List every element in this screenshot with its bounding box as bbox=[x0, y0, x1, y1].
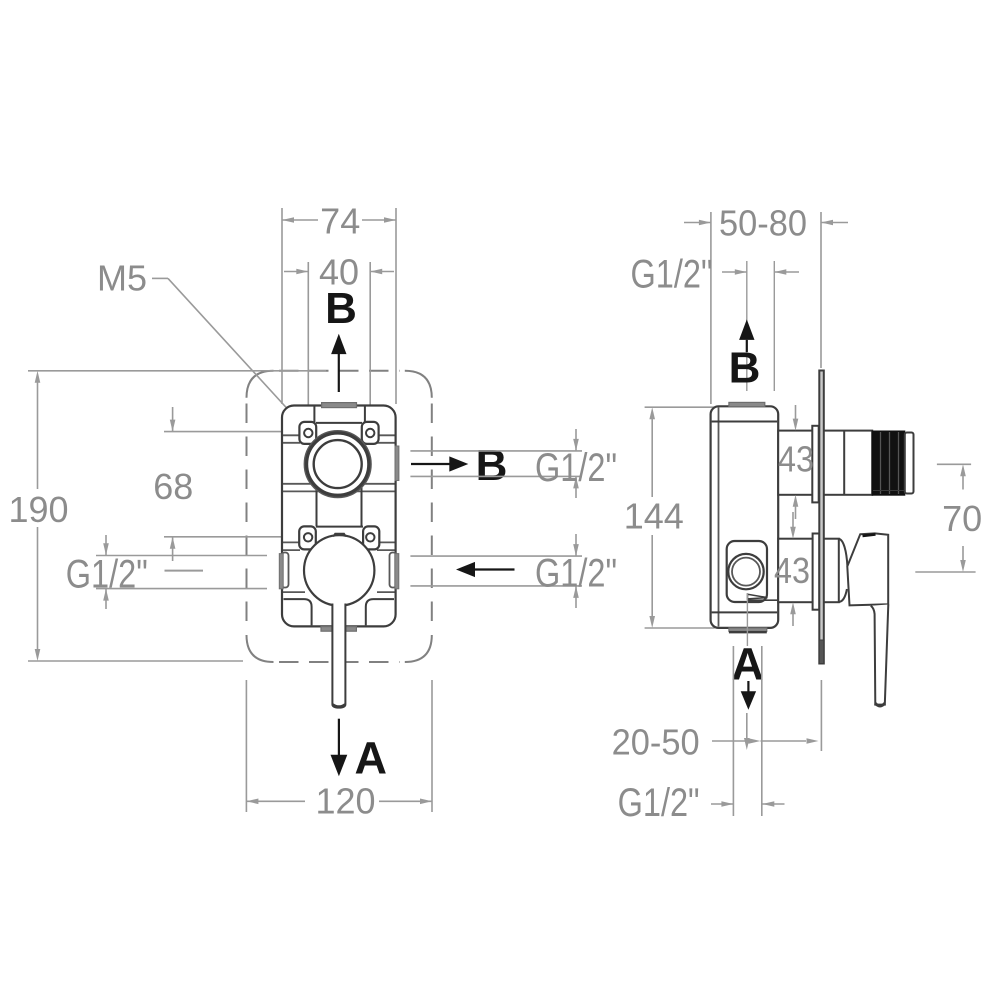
side lower port centerline bbox=[746, 593, 748, 646]
G1/2 front-left mini-dim arrows bbox=[105, 535, 107, 555]
top circle port inner ring bbox=[314, 440, 362, 488]
G1/2 lower-right mini-dim arrows bbox=[575, 534, 577, 556]
svg-text:A: A bbox=[731, 639, 764, 690]
side handle lever bottom cap bbox=[875, 703, 885, 706]
upper step lines beside top circle bbox=[283, 434, 300, 436]
lower band step lines bbox=[283, 591, 305, 593]
side lower port flange bbox=[813, 534, 820, 610]
dim 74 extension line left bbox=[281, 208, 283, 404]
left side port gray stub bbox=[279, 554, 283, 589]
front top port gray cap bbox=[322, 403, 357, 408]
dim 190 extension line top bbox=[28, 370, 326, 372]
lower screw hole right bbox=[366, 533, 374, 541]
upper screw tab right bbox=[362, 422, 379, 444]
svg-text:68: 68 bbox=[153, 466, 193, 507]
G1/2 side-top arrows outside bbox=[722, 271, 747, 273]
side cartridge circle outer bbox=[728, 554, 763, 589]
arrow A down (side) bbox=[747, 681, 749, 692]
middle band lines left bbox=[283, 541, 302, 543]
side body rear housing bbox=[711, 406, 779, 628]
wall plate bottom dark end bbox=[819, 640, 824, 664]
side body top divider line bbox=[712, 421, 778, 423]
dim 68 bottom arrow bbox=[172, 537, 174, 561]
front view: dashed wall recess outline bbox=[247, 371, 274, 398]
arrow A down (front) bbox=[338, 719, 340, 755]
dim 50-80 extension line right bbox=[820, 212, 822, 368]
small bump on top of lower circle bbox=[333, 534, 346, 537]
side upper port end cap bbox=[905, 433, 914, 494]
side body inner face line bbox=[718, 408, 720, 627]
dim 70 extension line bottom bbox=[915, 571, 975, 573]
right side port gray stub bbox=[395, 554, 399, 589]
svg-text:B: B bbox=[729, 343, 761, 392]
dim 20-50 line+arrows bbox=[712, 740, 748, 742]
dim 144 extension line bottom bbox=[645, 627, 715, 629]
upper screw hole right M5 bbox=[366, 429, 374, 437]
side bottom port stub bbox=[729, 628, 767, 631]
side handle knob bbox=[847, 533, 888, 605]
svg-text:20-50: 20-50 bbox=[612, 722, 700, 763]
svg-text:190: 190 bbox=[8, 489, 68, 530]
svg-text:G1/2": G1/2" bbox=[631, 253, 713, 297]
lower circle valve port bbox=[304, 535, 374, 605]
arrow left (front lower port inlet) bbox=[466, 568, 515, 570]
G1/2 lower-right extension lines bbox=[410, 555, 582, 557]
dim 144 arrows bbox=[649, 407, 655, 419]
dim 144 line bbox=[651, 414, 653, 497]
G1/2 upper-right mini-dim arrows bbox=[575, 429, 577, 451]
side top port stub bbox=[729, 402, 765, 406]
svg-text:G1/2": G1/2" bbox=[535, 552, 617, 596]
dim 120 extension lines bbox=[245, 680, 247, 812]
top circle port outer ring bbox=[306, 433, 369, 496]
dim 144 extension line top bbox=[645, 406, 715, 408]
svg-text:43: 43 bbox=[774, 550, 810, 591]
side handle knob top clip mark bbox=[863, 534, 876, 535]
handle stem bottom dark cap bbox=[333, 704, 345, 706]
dim 190 line bbox=[37, 378, 39, 489]
svg-text:A: A bbox=[355, 733, 388, 784]
front body outline bbox=[282, 406, 396, 627]
side handle lever bbox=[871, 605, 889, 705]
dim 190 arrows bbox=[35, 371, 41, 383]
arrow B up (front) bbox=[338, 352, 340, 392]
svg-text:50-80: 50-80 bbox=[719, 202, 807, 243]
dim 43 upper arrows bbox=[795, 405, 797, 426]
arrow B right (front upper port) bbox=[411, 463, 450, 465]
center block vertical edges top bbox=[313, 407, 315, 423]
G1/2 side-bottom arrows outside bbox=[711, 803, 733, 805]
G1/2 upper-right extension lines bbox=[410, 450, 582, 452]
dim 40 extension line left bbox=[307, 262, 309, 428]
dim 43 lower arrows bbox=[792, 512, 794, 534]
dim 20-50 centerline arrow bbox=[746, 713, 748, 742]
dim 68 bottom extension line bbox=[164, 536, 293, 538]
left side port boss bracket bbox=[282, 553, 289, 588]
dim 50-80 extension line left bbox=[710, 212, 712, 404]
bottom-right inner corner bracket bbox=[366, 599, 394, 625]
lower screw tab left bbox=[299, 526, 316, 549]
dim 120 line+arrows bbox=[246, 800, 305, 802]
lower step lines beside top circle bbox=[283, 483, 311, 485]
dim 70 arrows bbox=[962, 471, 964, 490]
side cartridge circle inner bbox=[732, 558, 760, 586]
front bottom port gray cap bbox=[321, 627, 356, 632]
svg-text:144: 144 bbox=[624, 496, 684, 537]
wall plate bbox=[819, 371, 824, 664]
G1/2 side-top mini-dim lines bbox=[746, 261, 748, 391]
side cartridge wedge tab bbox=[748, 594, 768, 599]
dim 50-80 arrows outside bbox=[684, 222, 711, 224]
dim 68 top arrow bbox=[172, 407, 174, 432]
svg-text:G1/2": G1/2" bbox=[618, 781, 700, 825]
side lower cartridge dome bbox=[839, 539, 848, 602]
dim 40 extension line right bbox=[369, 262, 371, 428]
dim 74 extension line right bbox=[395, 208, 397, 404]
side upper port flange bbox=[812, 426, 818, 503]
dim 40 arrows outside bbox=[284, 271, 308, 273]
arrow B up (side) bbox=[746, 340, 748, 352]
bottom-left inner corner bracket bbox=[284, 599, 312, 625]
dim 74 line+arrows bbox=[282, 219, 318, 221]
G1/2 front-left leader dash bbox=[165, 570, 204, 572]
svg-text:B: B bbox=[476, 441, 508, 490]
center block vertical edges middle bbox=[316, 444, 318, 527]
side upper port housing bbox=[778, 431, 872, 495]
top circle port outer thin edge bbox=[304, 431, 371, 498]
svg-text:B: B bbox=[325, 284, 357, 333]
center block bottom edge between screw tabs bbox=[316, 422, 362, 424]
side upper port knurled thread G1/2 bbox=[872, 431, 905, 495]
upper screw tab left bbox=[299, 422, 316, 444]
G1/2 front-left extension lines bbox=[96, 555, 267, 557]
svg-text:43: 43 bbox=[778, 439, 814, 480]
side upper port division line bbox=[843, 431, 845, 494]
upper right port gray stub bbox=[395, 446, 399, 481]
handle stem bbox=[332, 604, 345, 708]
side lower port housing bbox=[778, 539, 839, 603]
lower screw tab right bbox=[363, 526, 379, 549]
svg-text:120: 120 bbox=[315, 780, 375, 821]
lower screw hole left bbox=[304, 533, 312, 541]
label M5 leader line bbox=[152, 277, 168, 279]
svg-text:70: 70 bbox=[942, 498, 982, 539]
side body bottom divider line bbox=[712, 611, 778, 613]
block top edge between lower tabs bbox=[316, 526, 363, 528]
dim 20-50 extension lines bbox=[732, 646, 734, 816]
dim 190 extension line bottom bbox=[28, 660, 243, 662]
upper screw hole left M5 bbox=[304, 429, 312, 437]
svg-text:M5: M5 bbox=[97, 258, 147, 299]
side valve cartridge boss bbox=[727, 541, 767, 602]
dim 68 top extension line bbox=[164, 431, 293, 433]
svg-text:G1/2": G1/2" bbox=[535, 446, 617, 490]
right side port boss bracket bbox=[390, 553, 397, 588]
side bottom stub dark edge bbox=[729, 631, 767, 633]
svg-text:74: 74 bbox=[320, 200, 360, 241]
middle band lines right bbox=[376, 541, 395, 543]
dim 70 extension line top bbox=[937, 463, 971, 465]
